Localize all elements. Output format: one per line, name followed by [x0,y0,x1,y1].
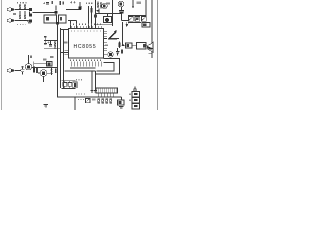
label text [106,3,110,5]
wire [14,20,19,22]
label specks [50,56,53,58]
junction dot [88,67,90,69]
wire vertical far right [151,0,153,58]
resistor R18 [98,99,112,104]
resistor R19 [109,38,118,40]
IC top pins [71,26,101,29]
resistor R14 [33,67,38,74]
module box left edge [74,97,76,110]
wire vertical [92,71,96,90]
ground [119,107,124,109]
label specks below bus [78,99,84,101]
resistor R17 [121,50,123,54]
bottom bus thick [58,96,122,98]
antenna arrow [132,0,134,8]
capacitor C9 [126,43,133,48]
right page edge [157,0,159,110]
resistor R7 [91,6,93,29]
transistor Q2 [29,14,32,17]
capacitor C5 [44,36,47,41]
wire [19,20,29,22]
wire [34,62,47,67]
IC bottom pins [71,62,101,67]
ground [44,105,49,108]
wire vertical [95,0,97,29]
capacitor C6b [48,41,52,46]
label text [13,13,16,15]
wire [44,48,61,50]
battery BT1 [129,92,140,98]
capacitor C4 [119,10,124,13]
label specks [76,79,83,81]
crystal X1 [118,100,125,105]
label text [43,59,47,61]
component box [47,62,53,67]
wire [122,44,148,46]
wire [62,81,76,89]
battery BT2 [129,98,140,104]
junction [55,11,58,14]
component mark [28,22,31,24]
plus sign [70,1,76,3]
wire [62,80,76,82]
wire [43,76,45,82]
wire [44,40,58,42]
transistor Q1 [27,8,32,11]
wire vertical [88,6,90,29]
speaker SP1 [147,42,153,54]
transistor Q9 [108,52,113,57]
junction dot [122,44,124,46]
battery BT3 [132,104,140,110]
wire [61,29,69,31]
wire corner outer [96,59,120,75]
label text [86,2,93,4]
resistor R1 [19,4,21,9]
wire [19,9,29,11]
battery top tick [134,87,136,92]
resistor R10 [129,17,134,22]
transistor Q4 [79,2,82,10]
resistor R6 [60,1,64,5]
connector J3 [7,69,14,72]
connector J1 [7,8,14,11]
wire [32,67,58,69]
resistor R8 [97,2,99,9]
mic MIC1 [104,17,112,23]
wire [122,7,129,21]
capacitor C11 [86,99,91,103]
IC U2 [44,15,57,23]
label specks [17,24,26,26]
connector J2 [7,19,14,22]
capacitor C8 [91,91,98,93]
label speck [105,44,108,46]
bus bottom wires [65,68,96,71]
arrow down [126,22,128,27]
wire [96,9,122,14]
capacitor C6 [44,41,47,45]
resistor R11 [135,17,140,22]
bus wire A [58,23,76,97]
wire down to junction [122,22,124,45]
IC U1 HC8055 [69,29,104,59]
capacitor C3 [43,2,49,4]
transistor Q8 [38,70,47,77]
wire [128,15,146,17]
resistor R3 [19,14,21,19]
capacitor C7 [21,66,25,74]
wire [14,9,19,11]
wire [128,22,141,24]
transistor Q3 [27,20,32,23]
resistor R2 [24,4,26,9]
junction blob [56,22,59,24]
svg-text:HC8055: HC8055 [74,44,97,50]
junction dots [19,9,25,21]
potentiometer VR2 [104,30,120,39]
diode D1 [142,23,150,28]
wire [66,9,79,11]
wire [96,14,113,25]
resistor R8b [100,2,102,9]
ground [97,11,100,12]
diode arrows [99,93,114,97]
capacitor C10 [116,48,119,56]
wire [47,72,52,74]
IC inner top labels [71,30,101,32]
wire [20,11,30,14]
wire [121,97,123,100]
label text [137,2,141,4]
label text [30,55,32,57]
component mark [94,15,97,18]
resistor R16 [119,42,121,49]
component mark [92,99,96,101]
wire corner inner [97,63,115,72]
IC top pin labels [70,23,102,25]
resistor R13 [54,41,56,49]
transistor Q6 [118,1,124,7]
wire [55,6,57,16]
transformer T1 [137,43,147,50]
resistor R4 [24,14,26,19]
resistor R12 [142,17,147,22]
IC right pins [104,31,108,54]
label text [17,2,28,4]
IC left pin labels [64,42,68,44]
wire vertical [145,0,147,16]
left page edge [1,0,3,110]
small cluster caps [63,82,77,88]
wire [61,52,69,54]
wire vertical long [112,0,114,26]
IC bottom pin labels [70,59,102,61]
resistor R5 [52,1,53,4]
connector row CN1 [96,88,118,93]
IC U3 [59,15,67,23]
wire [33,12,37,14]
resistor R15 [51,68,53,76]
transistor Q7 [25,55,31,70]
bus wire C [63,30,65,88]
label specks above bus [76,93,86,95]
component mark [55,69,57,74]
transistor Q5 [102,3,107,8]
wire [68,21,77,29]
IC left pins [65,51,69,55]
junction dot [91,70,93,72]
bus wire B [60,28,62,88]
wire [14,70,21,72]
wire main top [36,12,58,14]
